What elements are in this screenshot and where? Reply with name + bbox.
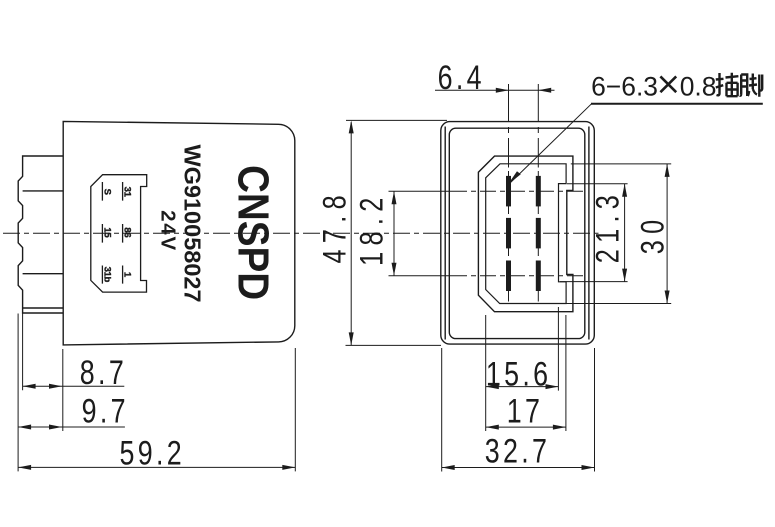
- outer rounded rect: [441, 122, 595, 345]
- pin terminal row2 right: [536, 218, 541, 249]
- dim 47.8 line: [346, 120, 448, 345]
- CJK char 脚: [740, 74, 762, 97]
- left connector extension block: [18, 156, 63, 313]
- extension lines right view bottom: [442, 307, 595, 472]
- svg-text:17: 17: [507, 393, 544, 431]
- main horizontal centerline: [3, 232, 599, 234]
- dim 21.3 line: [560, 184, 628, 282]
- dimensions: [18, 90, 763, 471]
- svg-text:47.8: 47.8: [318, 189, 354, 263]
- dim 8.7 line: [23, 385, 125, 387]
- pin column centerline right: [537, 84, 539, 302]
- left view body: [63, 121, 295, 345]
- pin row3 centerline: [389, 275, 452, 277]
- pin terminal row3 left: [506, 261, 511, 292]
- dim 32.7 line: [442, 467, 595, 469]
- svg-text:15.6: 15.6: [486, 355, 552, 393]
- multiplication sign: [660, 76, 676, 92]
- dim 17 line: [486, 426, 566, 428]
- svg-text:CNSPD: CNSPD: [229, 165, 278, 300]
- inner rounded rect: [449, 128, 585, 338]
- svg-text:32.7: 32.7: [485, 433, 551, 471]
- pin terminal row2 left: [506, 218, 511, 249]
- CJK char 插: [716, 73, 739, 96]
- dim 59.2 line: [18, 466, 295, 468]
- dim 9.7 line: [18, 426, 125, 428]
- CJK 插脚 simplified strokes: [660, 76, 676, 92]
- svg-text:21.3: 21.3: [591, 189, 627, 263]
- dim 30 line: [559, 164, 671, 304]
- svg-text:9.7: 9.7: [82, 393, 129, 431]
- extension interior lines: [23, 191, 64, 308]
- connector outline inner: [486, 164, 566, 304]
- side wall lines: [445, 127, 589, 340]
- svg-text:WG910058027: WG910058027: [180, 144, 206, 302]
- pin terminal row3 right: [536, 261, 541, 292]
- svg-text:8.7: 8.7: [80, 354, 127, 392]
- pin column centerline left: [508, 84, 510, 302]
- label connector shape: [91, 175, 147, 292]
- svg-text:31: 31: [122, 187, 133, 198]
- svg-text:6.4: 6.4: [438, 59, 485, 97]
- svg-text:30: 30: [636, 214, 672, 255]
- right view: [441, 122, 595, 345]
- pin terminal row1 left: [506, 176, 511, 207]
- svg-text:S: S: [101, 189, 112, 195]
- dim texts: [80, 59, 717, 472]
- svg-text:59.2: 59.2: [120, 435, 186, 473]
- arrowheads for all dimensions: [496, 88, 509, 93]
- svg-text:1: 1: [122, 272, 133, 278]
- leader arrowhead: [508, 171, 521, 184]
- svg-text:86: 86: [122, 227, 133, 237]
- svg-text:24V: 24V: [157, 210, 180, 252]
- dim 18.2 line: [393, 191, 395, 276]
- extension lines left view: [18, 314, 295, 472]
- dim 15.6 line: [486, 386, 559, 388]
- svg-text:6−6.3: 6−6.3: [591, 71, 658, 101]
- pin row1 centerline: [389, 190, 452, 192]
- pin terminal row1 right: [536, 176, 541, 207]
- svg-text:18.2: 18.2: [355, 191, 391, 265]
- connector outline outer: [478, 156, 573, 312]
- dim 6.4 line: [435, 89, 555, 91]
- leader line: [509, 104, 592, 184]
- svg-text:31b: 31b: [101, 267, 112, 283]
- centerlines: [3, 84, 599, 302]
- svg-text:0.8: 0.8: [680, 71, 717, 101]
- label underline bars: [102, 182, 122, 284]
